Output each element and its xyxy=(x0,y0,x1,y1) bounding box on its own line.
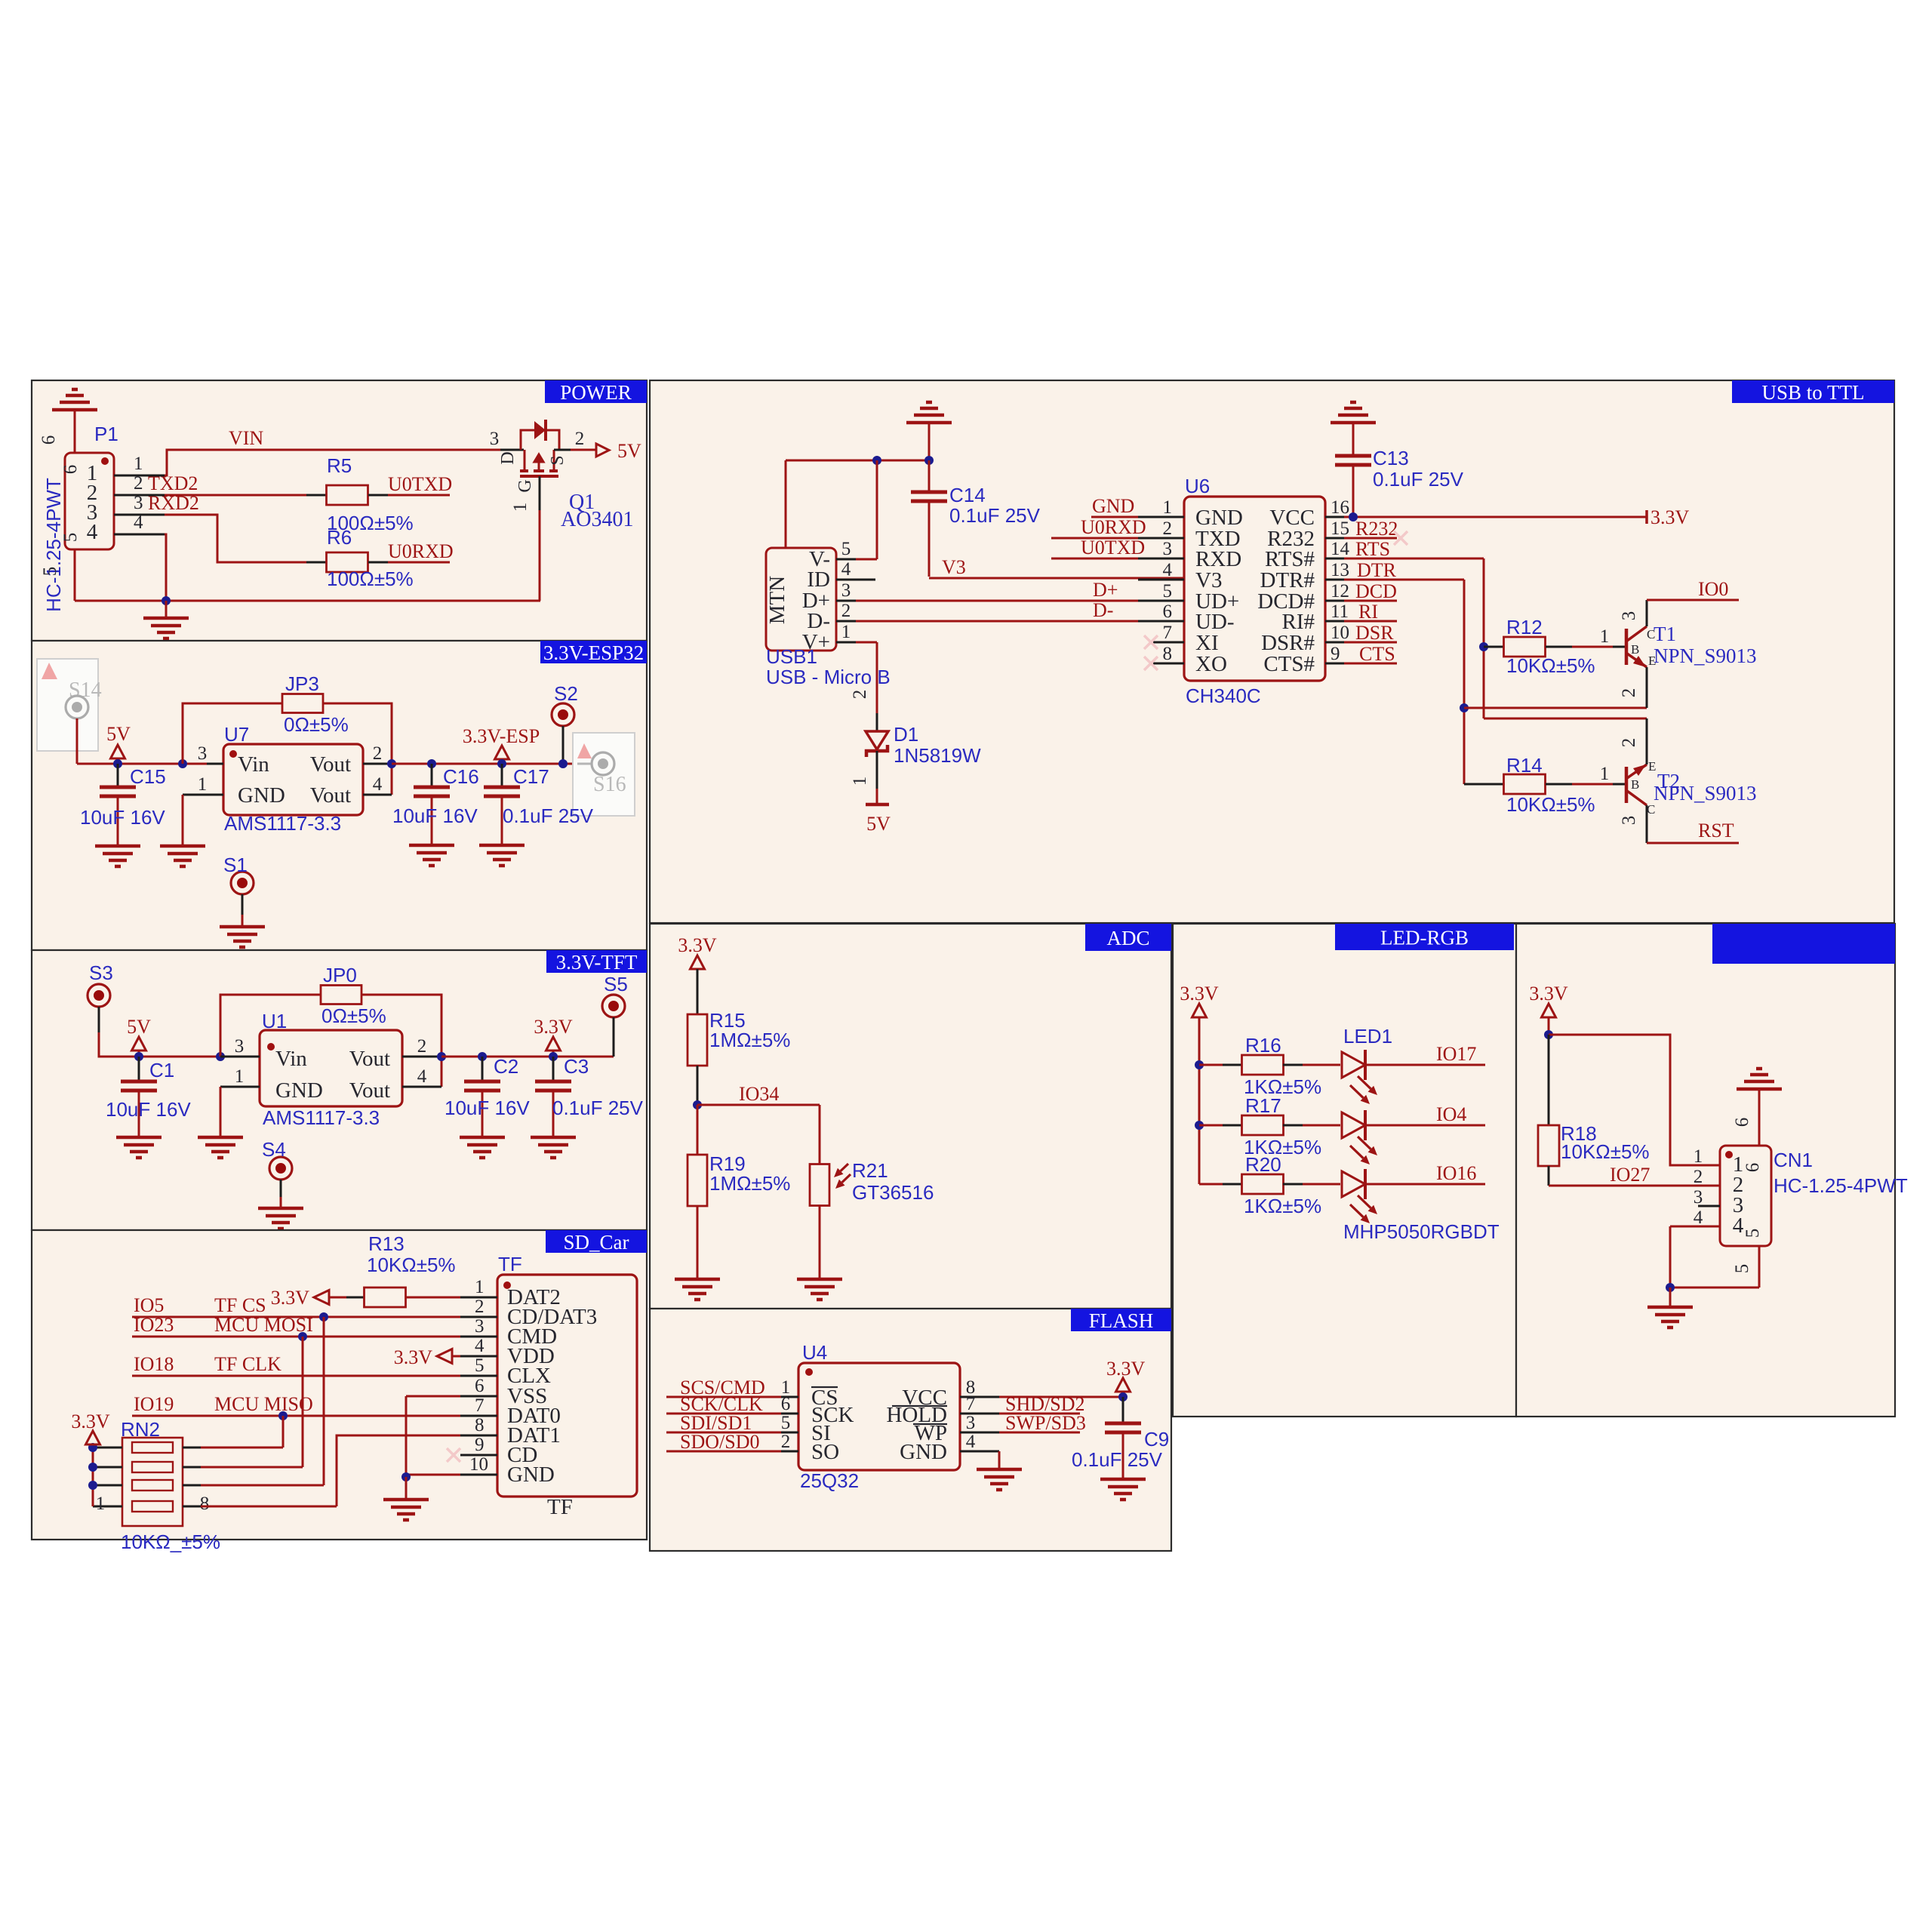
svg-text:1MΩ±5%: 1MΩ±5% xyxy=(709,1172,790,1195)
svg-text:1: 1 xyxy=(134,454,143,474)
net label U0RXD xyxy=(1081,516,1146,538)
transistor T1 NPN_S9013 xyxy=(1619,600,1656,697)
svg-text:2: 2 xyxy=(841,601,851,621)
svg-text:S5: S5 xyxy=(604,973,628,995)
net label R232 xyxy=(1355,518,1398,540)
value AO3401 of Q1 xyxy=(561,508,633,531)
svg-text:S4: S4 xyxy=(262,1138,286,1161)
pad S16 (unused) xyxy=(573,733,635,816)
svg-text:2: 2 xyxy=(417,1036,427,1057)
label TF xyxy=(498,1253,522,1275)
connector CN1 xyxy=(1720,1146,1771,1246)
pin 1 of U1 to ground xyxy=(220,1066,260,1136)
value 1Mohm of R15 xyxy=(709,1029,790,1051)
capacitor C3 xyxy=(535,1057,571,1136)
svg-text:1KΩ±5%: 1KΩ±5% xyxy=(1244,1195,1321,1217)
wire 3.3V-ESP rail xyxy=(392,763,577,765)
svg-text:MHP5050RGBDT: MHP5050RGBDT xyxy=(1343,1220,1500,1243)
svg-text:3.3V: 3.3V xyxy=(1106,1358,1146,1380)
power port 3.3V-ESP xyxy=(463,725,540,764)
net label D+ xyxy=(1093,579,1118,601)
net label U0TXD xyxy=(388,473,452,495)
junction U7 output xyxy=(387,759,396,768)
svg-text:3.3V: 3.3V xyxy=(71,1411,110,1432)
svg-text:RTS: RTS xyxy=(1355,538,1390,560)
svg-text:2: 2 xyxy=(781,1432,791,1452)
pin labels D G S of Q1 xyxy=(498,451,568,492)
label JP3 xyxy=(285,672,319,695)
svg-text:TF CS: TF CS xyxy=(214,1294,266,1316)
label C13 xyxy=(1373,447,1409,469)
svg-text:R14: R14 xyxy=(1506,754,1543,777)
svg-text:14: 14 xyxy=(1331,539,1350,559)
junction C14 rail xyxy=(924,456,934,465)
label C14 xyxy=(949,484,986,506)
IC U6 CH340C xyxy=(1184,497,1325,681)
value 10uF 16V of C16 xyxy=(392,804,478,827)
wire T1 emitter to DTR xyxy=(1464,675,1647,708)
resistor R18 xyxy=(1538,1035,1559,1186)
wire from S14 to 5V rail xyxy=(77,718,207,764)
wire SCS/CMD net xyxy=(666,1396,781,1398)
value HC-1.25-4PWT of P1 xyxy=(42,478,65,612)
wire JP0 bypass left xyxy=(220,995,321,1057)
svg-text:10KΩ_±5%: 10KΩ_±5% xyxy=(121,1531,220,1553)
transistor Q1 PMOS symbol xyxy=(520,450,558,476)
svg-text:AO3401: AO3401 xyxy=(561,508,633,531)
resistor R15 xyxy=(688,969,707,1105)
section frame USB to TTL xyxy=(650,380,1894,923)
label P1 xyxy=(94,423,118,445)
svg-text:GND: GND xyxy=(507,1463,555,1487)
label R19 xyxy=(709,1152,746,1175)
wire Q1 gate pin 1 xyxy=(510,476,540,601)
label T1 xyxy=(1654,623,1676,645)
wire SWP/SD3 net xyxy=(999,1432,1080,1434)
svg-text:7: 7 xyxy=(966,1394,976,1414)
svg-text:C2: C2 xyxy=(494,1055,518,1078)
pin 3 stub of Q1 xyxy=(490,429,524,450)
label C15 xyxy=(130,765,166,788)
ground under TF xyxy=(383,1500,429,1520)
wire GND stub net xyxy=(1091,516,1138,518)
svg-text:Vout: Vout xyxy=(349,1047,390,1071)
wire DAT1 pin8 to RN2 xyxy=(337,1435,460,1506)
svg-text:R16: R16 xyxy=(1245,1034,1281,1057)
svg-text:3.3V: 3.3V xyxy=(534,1016,573,1038)
svg-text:10KΩ±5%: 10KΩ±5% xyxy=(1506,654,1595,677)
svg-text:3: 3 xyxy=(1619,611,1639,621)
svg-text:10uF 16V: 10uF 16V xyxy=(392,804,478,827)
svg-text:9: 9 xyxy=(475,1435,485,1455)
junction C9 xyxy=(1118,1392,1128,1401)
svg-text:R12: R12 xyxy=(1506,616,1543,638)
junction IO34 xyxy=(693,1100,702,1109)
svg-text:3: 3 xyxy=(235,1036,245,1057)
svg-text:10KΩ±5%: 10KΩ±5% xyxy=(367,1254,456,1276)
svg-text:USB1: USB1 xyxy=(766,645,817,668)
ground under U4 pin4 xyxy=(977,1469,1022,1490)
svg-text:10KΩ±5%: 10KΩ±5% xyxy=(1561,1140,1650,1163)
svg-text:S2: S2 xyxy=(554,682,578,705)
svg-text:6: 6 xyxy=(781,1394,791,1414)
wire pullup to RN2 pin for CS xyxy=(323,1317,325,1485)
ground under R21 xyxy=(797,1279,842,1300)
value 10Kohm of R12 xyxy=(1506,654,1595,677)
svg-text:GND: GND xyxy=(275,1078,323,1103)
svg-text:10uF 16V: 10uF 16V xyxy=(80,806,165,829)
svg-text:G: G xyxy=(515,479,535,492)
net label IO0 xyxy=(1698,578,1728,600)
svg-text:MTN: MTN xyxy=(765,576,789,625)
label U4 xyxy=(802,1341,827,1364)
wire 3.3V rail of LEDs xyxy=(1198,1065,1201,1184)
svg-text:4: 4 xyxy=(841,559,851,580)
power port 3.3V at RN2 xyxy=(71,1411,110,1444)
value AMS1117-3.3 of U7 xyxy=(224,812,341,835)
svg-text:IO27: IO27 xyxy=(1610,1164,1650,1186)
svg-text:C15: C15 xyxy=(130,765,166,788)
wire IO4 net xyxy=(1365,1124,1485,1127)
svg-text:XO: XO xyxy=(1195,652,1227,676)
label U6 xyxy=(1185,475,1210,497)
svg-text:7: 7 xyxy=(475,1395,485,1416)
wire 3.3V to CN1 pin1 xyxy=(1549,1035,1720,1165)
wire TF_CLK net pin5 xyxy=(132,1375,460,1377)
junction on ground rail xyxy=(162,596,171,605)
pad S4 xyxy=(262,1138,292,1180)
section frame 3.3V-ESP32 xyxy=(32,641,647,950)
svg-text:1: 1 xyxy=(1163,497,1173,518)
svg-text:3: 3 xyxy=(134,493,143,513)
svg-text:5: 5 xyxy=(475,1355,485,1376)
wire TXD2 from P1 pin2 xyxy=(165,494,306,497)
section frame FLASH xyxy=(650,1309,1171,1551)
section header ADC xyxy=(1085,924,1171,951)
net label IO27 xyxy=(1610,1164,1650,1186)
wire DCD stub xyxy=(1344,600,1397,602)
svg-text:SDO/SD0: SDO/SD0 xyxy=(680,1431,759,1453)
wire IO34 net xyxy=(697,1105,820,1164)
pin stubs left of U6 xyxy=(1138,497,1184,664)
resistor R19 xyxy=(688,1105,707,1278)
value 0ohm of JP3 xyxy=(284,713,349,736)
net label RTS xyxy=(1355,538,1390,560)
svg-text:3.3V: 3.3V xyxy=(1529,983,1568,1004)
junction U1 output xyxy=(437,1052,446,1061)
svg-text:C17: C17 xyxy=(513,765,549,788)
label RN2 xyxy=(121,1418,160,1441)
svg-text:GND: GND xyxy=(238,783,285,808)
svg-text:1: 1 xyxy=(198,774,208,795)
wire JP3 bypass right xyxy=(323,703,392,795)
label T2 xyxy=(1657,770,1680,792)
section header POWER xyxy=(545,380,647,404)
power port 5V xyxy=(127,1016,151,1057)
section frame LED-RGB xyxy=(1173,924,1516,1417)
net label IO16 xyxy=(1436,1162,1476,1184)
ground under C3 xyxy=(531,1137,576,1158)
svg-text:3.3V-TFT: 3.3V-TFT xyxy=(556,951,638,974)
power port 3.3V xyxy=(678,934,717,969)
value 0.1uF 25V of C9 xyxy=(1072,1448,1163,1471)
svg-text:V3: V3 xyxy=(942,556,966,578)
wire to ground under TF xyxy=(405,1477,408,1498)
svg-text:5V: 5V xyxy=(617,440,641,462)
svg-text:0.1uF 25V: 0.1uF 25V xyxy=(552,1097,644,1119)
pin 4 stub of U1 xyxy=(402,1066,441,1087)
wire IO17 net xyxy=(1365,1064,1485,1066)
svg-text:S16: S16 xyxy=(593,773,626,796)
svg-text:25Q32: 25Q32 xyxy=(800,1469,859,1492)
svg-text:8: 8 xyxy=(200,1494,210,1514)
pin number 1 of RN2 xyxy=(96,1494,106,1514)
diode D1 1N5819W xyxy=(866,731,888,757)
connector TF xyxy=(497,1275,637,1497)
wire S5 to rail xyxy=(613,1017,615,1057)
svg-text:MCU MISO: MCU MISO xyxy=(214,1393,313,1415)
svg-text:0.1uF 25V: 0.1uF 25V xyxy=(1373,468,1464,491)
section header blank xyxy=(1712,924,1895,964)
pin 3 stub of U7 xyxy=(198,743,223,764)
svg-text:R6: R6 xyxy=(327,526,352,549)
label U7 xyxy=(224,723,249,746)
svg-text:DSR: DSR xyxy=(1355,622,1394,644)
pin number 5 of P1 xyxy=(40,567,60,577)
net label TF_CS xyxy=(214,1294,266,1316)
wire S3 to 5V rail xyxy=(99,1007,220,1057)
resistor R5 xyxy=(306,485,388,505)
label USB1 xyxy=(766,645,817,668)
value 1N5819W of D1 xyxy=(894,744,981,767)
svg-text:6: 6 xyxy=(1732,1118,1752,1128)
pin 4 stub of U7 xyxy=(363,774,392,795)
svg-text:3.3V: 3.3V xyxy=(1651,506,1690,528)
svg-text:6: 6 xyxy=(1163,601,1173,622)
svg-text:U0RXD: U0RXD xyxy=(1081,516,1146,538)
capacitor C14 xyxy=(911,460,947,577)
value 10Kohm of RN2 xyxy=(121,1531,220,1553)
pin 3 stub of U1 xyxy=(220,1036,260,1057)
svg-text:R232: R232 xyxy=(1355,518,1398,540)
svg-text:GND: GND xyxy=(900,1440,947,1464)
label R21 xyxy=(852,1159,888,1182)
svg-text:1N5819W: 1N5819W xyxy=(894,744,981,767)
wire GND pin10 xyxy=(406,1474,460,1476)
svg-text:9: 9 xyxy=(1331,644,1340,664)
junction RTS/R12 xyxy=(1479,642,1488,651)
svg-text:4: 4 xyxy=(134,512,143,533)
svg-text:13: 13 xyxy=(1331,560,1349,580)
ground above C13 xyxy=(1331,402,1376,456)
resistor R14 xyxy=(1464,764,1625,794)
resistor network RN2 xyxy=(93,1438,201,1526)
wire RTS net down xyxy=(1344,558,1647,758)
svg-text:TXD2: TXD2 xyxy=(148,472,198,494)
net label U0TXD xyxy=(1081,537,1145,558)
net label TXD2 xyxy=(148,472,198,494)
pin number 6 of CN1 xyxy=(1732,1118,1752,1128)
wire USB V+ down to D1 xyxy=(850,642,877,731)
svg-text:U4: U4 xyxy=(802,1341,827,1364)
svg-text:6: 6 xyxy=(38,435,59,445)
svg-text:10: 10 xyxy=(1331,623,1349,643)
power port 3.3V xyxy=(1106,1358,1146,1397)
svg-text:IO18: IO18 xyxy=(134,1353,174,1375)
net label IO34 xyxy=(739,1083,779,1105)
pin number 8 of RN2 xyxy=(200,1494,210,1514)
label C16 xyxy=(443,765,479,788)
junction 5V/C1 xyxy=(134,1052,143,1061)
wire ground rail from P1 pin5 xyxy=(75,549,540,601)
section header 3.3V-TFT xyxy=(546,950,647,974)
net label MCU_MISO xyxy=(214,1393,313,1415)
net label CTS xyxy=(1359,643,1395,665)
svg-text:0.1uF 25V: 0.1uF 25V xyxy=(949,504,1041,527)
ground above C14 xyxy=(906,402,952,460)
svg-text:4: 4 xyxy=(1163,560,1173,580)
svg-text:CTS: CTS xyxy=(1359,643,1395,665)
value 10Kohm of R14 xyxy=(1506,793,1595,816)
svg-text:1: 1 xyxy=(1694,1146,1703,1167)
svg-text:R13: R13 xyxy=(368,1232,405,1255)
section header FLASH xyxy=(1071,1309,1171,1332)
ground under C15 xyxy=(95,846,140,866)
svg-text:2: 2 xyxy=(1694,1167,1703,1187)
net label SDO/SD0 xyxy=(680,1431,759,1453)
svg-text:5: 5 xyxy=(40,567,60,577)
ground under C1 xyxy=(116,1137,162,1158)
label C3 xyxy=(564,1055,589,1078)
svg-text:IO19: IO19 xyxy=(134,1393,174,1415)
wire MCU_MISO net pin7 xyxy=(132,1415,460,1417)
wire S1 to ground xyxy=(241,894,244,926)
svg-text:GND: GND xyxy=(1092,495,1134,517)
pad S14 (unused) xyxy=(37,659,102,751)
net label SHD/SD2 xyxy=(1005,1393,1084,1415)
svg-text:C16: C16 xyxy=(443,765,479,788)
junction DTR/T1 emitter xyxy=(1460,703,1469,712)
resistor R13 xyxy=(346,1287,460,1307)
wire RXD2 from P1 pin3 xyxy=(165,515,306,562)
svg-text:2: 2 xyxy=(1619,688,1639,698)
svg-text:HC-1.25-4PWT: HC-1.25-4PWT xyxy=(42,478,65,612)
wire GND pin4 down xyxy=(998,1451,1001,1468)
junction R17 xyxy=(1195,1121,1204,1130)
svg-text:R21: R21 xyxy=(852,1159,888,1182)
wire DTR net down xyxy=(1344,580,1464,784)
ground under C2 xyxy=(460,1137,505,1158)
wire SCK/CLK net xyxy=(666,1413,781,1415)
svg-text:4: 4 xyxy=(417,1066,427,1087)
value GT36516 of R21 xyxy=(852,1181,934,1204)
svg-text:4: 4 xyxy=(87,520,98,544)
wire USB V- to rail xyxy=(856,460,877,559)
pad S2 xyxy=(552,682,578,726)
svg-text:2: 2 xyxy=(575,429,585,449)
LED element IO16 xyxy=(1342,1169,1377,1223)
value NPN_S9013 of T2 xyxy=(1654,782,1757,804)
svg-text:1: 1 xyxy=(1600,626,1610,647)
svg-text:B: B xyxy=(1631,642,1639,657)
pin stubs 1-4 of P1 xyxy=(114,454,165,534)
svg-text:3: 3 xyxy=(966,1413,976,1433)
junction JP0 branch xyxy=(216,1052,225,1061)
svg-text:IO17: IO17 xyxy=(1436,1043,1476,1065)
junction S2 xyxy=(558,759,568,768)
junction 3.3V xyxy=(1544,1030,1553,1039)
svg-text:0Ω±5%: 0Ω±5% xyxy=(321,1004,386,1027)
svg-text:B: B xyxy=(1631,777,1639,792)
power port 3.3V with arrow at R13 xyxy=(271,1287,346,1309)
value MHP5050RGBDT of LED1 xyxy=(1343,1220,1500,1243)
net label RI xyxy=(1358,601,1378,623)
label R5 xyxy=(327,454,352,477)
svg-text:8: 8 xyxy=(1163,644,1173,664)
junction MOSI pullup xyxy=(298,1332,307,1341)
wire Q1 source to 5V xyxy=(554,429,595,450)
junction C3 xyxy=(549,1052,558,1061)
wire RN2 outputs xyxy=(201,1447,337,1506)
label C17 xyxy=(513,765,549,788)
svg-text:Vin: Vin xyxy=(238,752,269,777)
net label DSR xyxy=(1355,622,1394,644)
net label GND xyxy=(1092,495,1134,517)
svg-text:IO23: IO23 xyxy=(134,1314,174,1336)
svg-text:TF: TF xyxy=(498,1253,522,1275)
net label MCU_MOSI xyxy=(214,1314,313,1336)
net label SCS/CMD xyxy=(680,1377,765,1398)
wire VCC to 3.3V xyxy=(999,1396,1123,1398)
svg-text:5: 5 xyxy=(841,539,851,559)
svg-text:1MΩ±5%: 1MΩ±5% xyxy=(709,1029,790,1051)
svg-text:6: 6 xyxy=(60,465,81,475)
wire DSR stub xyxy=(1344,641,1397,644)
svg-text:2: 2 xyxy=(134,473,143,494)
wire SDO/SD0 net xyxy=(666,1451,781,1453)
svg-text:1: 1 xyxy=(475,1277,485,1297)
junction C16 xyxy=(427,759,436,768)
power port 3.3V with arrow at TF VDD xyxy=(394,1346,460,1368)
svg-text:ADC: ADC xyxy=(1106,927,1149,949)
svg-text:USB - Micro B: USB - Micro B xyxy=(766,666,891,688)
pad S5 xyxy=(602,973,628,1017)
wire CTS stub xyxy=(1344,663,1397,665)
ground under R19 xyxy=(675,1279,720,1300)
no-connect X on R232 xyxy=(1394,531,1407,545)
net label IO23 xyxy=(134,1314,174,1336)
svg-text:5: 5 xyxy=(1743,1229,1763,1238)
svg-text:AMS1117-3.3: AMS1117-3.3 xyxy=(224,812,341,835)
svg-text:S1: S1 xyxy=(223,854,248,876)
svg-text:4: 4 xyxy=(1694,1207,1703,1228)
svg-text:3.3V: 3.3V xyxy=(678,934,717,956)
wire JP3 bypass left xyxy=(183,703,283,764)
value AMS1117-3.3 of U1 xyxy=(263,1106,380,1129)
wire JP0 bypass right xyxy=(361,995,441,1087)
wire VBUS top rail xyxy=(786,460,929,548)
svg-text:3.3V-ESP32: 3.3V-ESP32 xyxy=(543,641,644,664)
svg-text:3: 3 xyxy=(490,429,500,449)
wire down to ground xyxy=(1669,1287,1672,1306)
stub CN1 pin3 xyxy=(1698,1205,1720,1207)
svg-text:3: 3 xyxy=(198,743,208,764)
wire D1 to 5V xyxy=(850,751,877,804)
svg-text:S3: S3 xyxy=(89,961,113,984)
net label IO4 xyxy=(1436,1103,1466,1125)
section header 3.3V-ESP32 xyxy=(540,641,647,664)
connector USB1 xyxy=(765,547,836,654)
